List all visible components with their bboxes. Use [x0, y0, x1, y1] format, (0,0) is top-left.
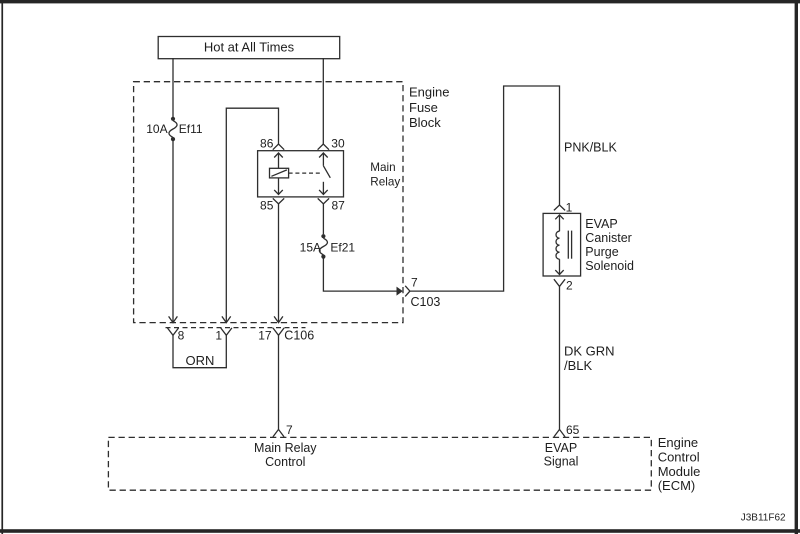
svg-text:Hot at All Times: Hot at All Times — [204, 40, 295, 55]
pin 30 terminal — [318, 144, 329, 150]
svg-text:J3B11F62: J3B11F62 — [741, 513, 786, 524]
svg-text:Block: Block — [409, 115, 441, 130]
svg-text:C103: C103 — [411, 295, 441, 309]
wire: relay pin 86 loop to connector C106 pin 1 — [222, 108, 279, 322]
svg-text:(ECM): (ECM) — [658, 478, 696, 493]
connector C106 pin 17 terminal — [273, 328, 284, 335]
svg-text:15A: 15A — [300, 240, 321, 254]
pin 87 terminal — [318, 198, 329, 203]
relay coil branch arrows — [274, 153, 283, 194]
relay switch contact — [319, 153, 330, 194]
svg-text:Control: Control — [265, 455, 305, 469]
wire: fuse Ef21 to connector C103 — [323, 259, 396, 292]
svg-text:/BLK: /BLK — [564, 358, 593, 373]
relay linkage dashed line — [289, 172, 322, 174]
label EVAP Signal — [544, 441, 579, 469]
wire: fuse Ef11 to connector C106 pin 8 — [169, 141, 178, 323]
svg-text:Engine: Engine — [658, 435, 698, 450]
wire: relay pin 87 to fuse Ef21 — [322, 204, 324, 235]
svg-text:Ef21: Ef21 — [330, 240, 355, 254]
wire: Hot at All Times to fuse Ef11 — [172, 58, 174, 117]
solenoid L1: EVAP Canister Purge Solenoid box — [543, 213, 581, 276]
ECM pin 7 terminal — [273, 429, 284, 437]
wire: ORN jumper between C106 pin 8 and pin 1 — [172, 335, 227, 367]
relay U: Main Relay box — [258, 151, 344, 197]
svg-text:ORN: ORN — [186, 353, 215, 368]
svg-text:1: 1 — [215, 329, 222, 343]
svg-text:Ef11: Ef11 — [179, 122, 203, 136]
svg-text:7: 7 — [286, 423, 293, 437]
power feed box: Hot at All Times — [158, 37, 340, 59]
svg-text:Solenoid: Solenoid — [585, 259, 634, 273]
svg-text:EVAP: EVAP — [545, 441, 577, 455]
connector C106 pin 1 terminal — [221, 328, 232, 335]
svg-text:30: 30 — [331, 137, 345, 151]
solenoid pin 2 terminal — [554, 279, 565, 286]
svg-text:Purge: Purge — [585, 245, 618, 259]
svg-text:Canister: Canister — [585, 231, 632, 245]
wire: solenoid pin 2 to ECM pin 65 (DK GRN/BLK) — [559, 286, 561, 429]
svg-text:Engine: Engine — [409, 85, 449, 100]
svg-text:Fuse: Fuse — [409, 100, 438, 115]
svg-text:Signal: Signal — [544, 455, 579, 469]
svg-text:85: 85 — [260, 199, 274, 213]
svg-text:Module: Module — [658, 464, 701, 479]
svg-text:C106: C106 — [284, 329, 314, 343]
Engine Control Module dashed box — [108, 437, 651, 490]
label EVAP Canister Purge Solenoid — [585, 217, 634, 273]
svg-text:1: 1 — [566, 201, 573, 215]
svg-text:8: 8 — [178, 329, 185, 343]
pin 85 terminal — [273, 198, 284, 203]
svg-text:2: 2 — [566, 279, 573, 293]
svg-text:7: 7 — [411, 276, 418, 290]
connector C103 pin 7 — [397, 286, 410, 297]
wire: relay pin 85 to connector C106 pin 17 — [274, 204, 283, 323]
solenoid pin 1 terminal — [554, 205, 565, 210]
wire: C106 pin 17 to ECM pin 7 — [278, 335, 280, 429]
svg-text:10A: 10A — [146, 122, 167, 136]
solenoid internal arrows and coil — [555, 215, 571, 275]
connector C106 dashed line — [166, 327, 306, 329]
svg-text:87: 87 — [332, 199, 346, 213]
svg-text:DK GRN: DK GRN — [564, 344, 615, 359]
label Engine Control Module (ECM) — [658, 435, 701, 493]
wire: connector C103 to EVAP solenoid pin 1 (PNK/BLK) — [410, 86, 560, 291]
fuse Ef11 10A — [169, 117, 177, 141]
svg-text:86: 86 — [260, 137, 274, 151]
Engine Fuse Block dashed box — [134, 82, 403, 323]
svg-text:65: 65 — [566, 423, 580, 437]
svg-text:Control: Control — [658, 450, 700, 465]
svg-text:Main: Main — [370, 161, 395, 174]
label Main Relay Control — [254, 441, 317, 469]
svg-text:EVAP: EVAP — [585, 217, 617, 231]
ECM pin 65 terminal — [554, 429, 565, 437]
connector C106 pin 8 terminal — [167, 328, 178, 335]
svg-text:Main Relay: Main Relay — [254, 441, 317, 455]
fuse Ef21 15A — [319, 234, 327, 259]
relay coil — [270, 168, 289, 178]
pin 86 terminal — [273, 144, 284, 150]
svg-text:Relay: Relay — [370, 176, 400, 189]
svg-text:17: 17 — [258, 329, 272, 343]
svg-text:PNK/BLK: PNK/BLK — [564, 141, 617, 155]
wire: Hot at All Times to relay pin 30 — [322, 58, 324, 144]
label Engine Fuse Block — [409, 85, 449, 131]
